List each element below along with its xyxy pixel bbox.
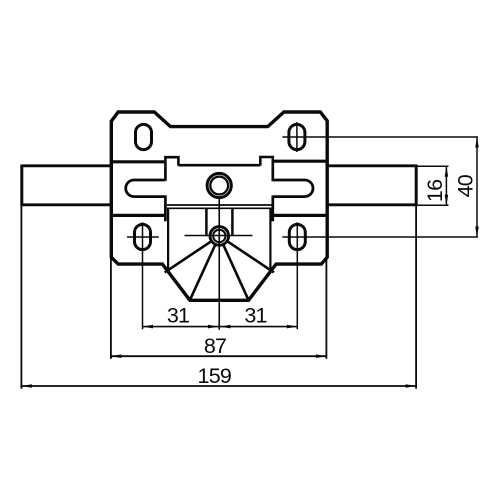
screw hole top-right (289, 124, 305, 149)
centerline vertical axis (218, 199, 220, 330)
cylinder outer circle (210, 227, 229, 246)
cylinder inner circle (213, 230, 225, 242)
svg-text:40: 40 (454, 174, 478, 197)
guide left vertical (205, 209, 208, 236)
fan ray to bottom-left corner (190, 236, 219, 300)
87 dim right extension (325, 258, 327, 359)
screw hole bottom-right (289, 224, 305, 249)
87 dim line (111, 355, 327, 357)
svg-text:16: 16 (423, 179, 447, 202)
arrow 31 center left-pointing (220, 325, 231, 329)
centerline bottom-left oval horizontal (127, 236, 159, 238)
guide right vertical (231, 209, 234, 236)
band upper line (167, 204, 272, 206)
left rod end (20, 165, 23, 207)
left tab (165, 157, 178, 166)
screw hole bottom-left (135, 224, 151, 249)
40 dim line (476, 137, 478, 237)
arrow 31 right end (287, 325, 298, 329)
svg-text:31: 31 (244, 303, 266, 327)
svg-text:31: 31 (167, 303, 189, 327)
case top edge right segment (274, 160, 328, 163)
159 dim left extension (20, 206, 22, 389)
screw hole top-left (136, 124, 152, 149)
87 dim left extension (110, 258, 112, 359)
centerline cylinder horizontal (185, 235, 253, 237)
front plate left edge lower bar (164, 195, 167, 221)
case top edge left segment (111, 160, 164, 163)
fan ray to bottom-right corner (219, 236, 248, 300)
centerline bottom-right oval horizontal / 40 lower extension (282, 236, 478, 238)
right tab (260, 157, 273, 166)
159 dim line (21, 385, 416, 387)
16 dim lower extension (416, 204, 448, 206)
knob inner circle (210, 177, 228, 195)
fan right vertical (269, 209, 271, 269)
arrow 16 down (445, 195, 449, 206)
svg-text:159: 159 (198, 364, 231, 388)
arrow 159 left (21, 384, 32, 388)
right rod bottom edge (327, 203, 416, 206)
right rod end (415, 165, 418, 207)
fan ray to left corner (165, 236, 220, 273)
arrow 40 up (475, 137, 479, 148)
arrow 87 right (316, 354, 327, 358)
band lower line (167, 207, 272, 209)
slot right cap (273, 180, 313, 197)
centerline top-right oval vertical (296, 122, 298, 152)
left rod bottom edge (22, 203, 112, 206)
right rod top edge (327, 164, 416, 167)
fan ray to right corner (219, 236, 274, 273)
case bottom edge left segment (111, 214, 165, 217)
arrow 40 down (475, 227, 479, 238)
centerline bottom-left oval vertical (142, 222, 144, 329)
body plate outline (111, 112, 327, 300)
159 dim right extension (415, 206, 417, 389)
arrow 31 center right-pointing (208, 325, 219, 329)
svg-text:87: 87 (204, 334, 226, 358)
front plate left edge upper (164, 166, 167, 181)
arrow 16 up (445, 166, 449, 177)
front plate top edge (178, 164, 260, 167)
centerline top-right oval horizontal / 40 upper extension (282, 136, 478, 138)
31 dim line (143, 326, 298, 328)
front plate right edge lower bar (271, 195, 274, 221)
arrow 87 left (111, 354, 122, 358)
left rod top edge (22, 164, 112, 167)
arrow 159 right (406, 384, 417, 388)
fan left vertical (167, 209, 169, 269)
knob outer circle (207, 173, 231, 197)
slot left cap (126, 180, 166, 197)
case bottom edge right segment (273, 214, 327, 217)
16 dim upper extension (416, 165, 448, 167)
arrow 31 left end (143, 325, 154, 329)
centerline bottom-right oval vertical (296, 222, 298, 329)
16 dim line (445, 166, 447, 205)
front plate right edge upper (271, 166, 274, 181)
